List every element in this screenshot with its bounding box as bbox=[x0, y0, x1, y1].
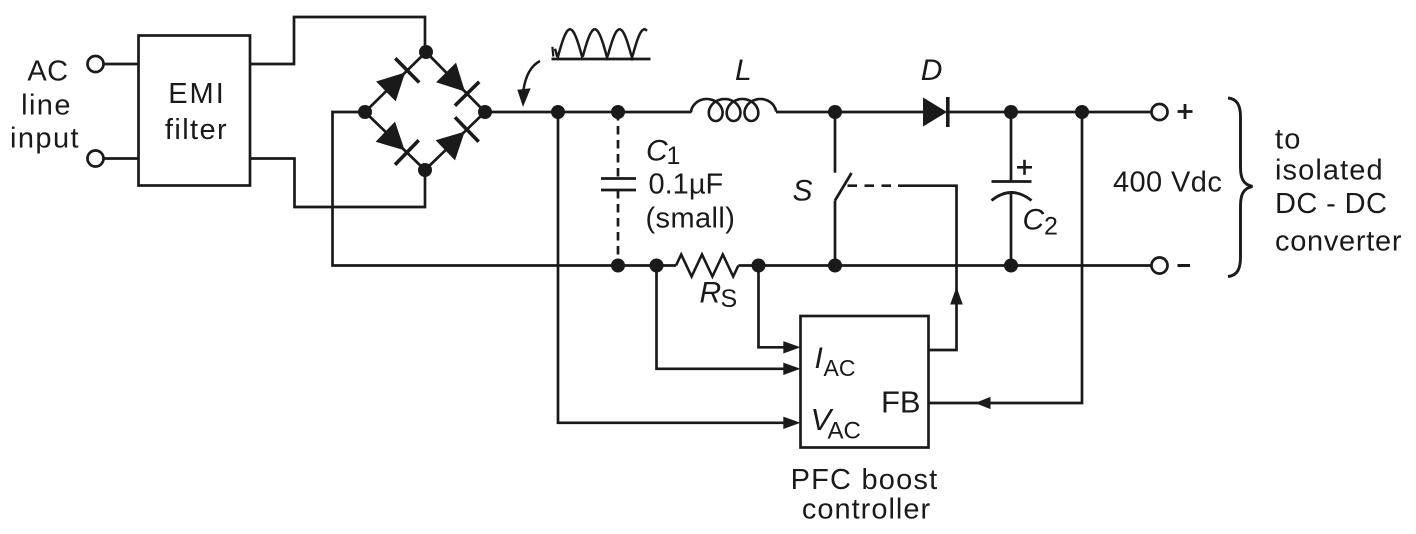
svg-text:input: input bbox=[10, 123, 80, 155]
svg-text:0.1µF: 0.1µF bbox=[649, 169, 724, 201]
svg-text:AC: AC bbox=[27, 56, 68, 88]
svg-text:filter: filter bbox=[165, 114, 228, 146]
arrow: gate drive direction bbox=[950, 287, 963, 305]
svg-text:C: C bbox=[646, 135, 668, 168]
switch S bbox=[834, 112, 837, 173]
svg-text:line: line bbox=[21, 90, 72, 122]
svg-text:I: I bbox=[815, 342, 823, 375]
node: C2 positive junction bbox=[1004, 105, 1018, 119]
svg-text:controller: controller bbox=[802, 494, 931, 526]
diode D bbox=[923, 98, 947, 127]
wire: bridge left node to negative bottom rail bbox=[333, 112, 677, 266]
node: switch drain junction bbox=[828, 105, 842, 119]
wire: Rs left sense to Iac input bbox=[657, 266, 785, 369]
wire: inductor to diode D bbox=[776, 111, 923, 114]
bridge diode (bottom-to-right) bbox=[436, 132, 465, 161]
wire: EMI filter top output to bridge top node bbox=[250, 17, 425, 64]
svg-text:DC - DC: DC - DC bbox=[1275, 188, 1387, 220]
node: bridge right bbox=[478, 105, 492, 119]
annotation: curved arrow pointing at rectified node bbox=[523, 61, 540, 91]
node: bridge top bbox=[419, 45, 433, 59]
node: C2 negative junction bbox=[1004, 259, 1018, 273]
wire: Vac sense to controller bbox=[558, 112, 784, 423]
label: + polarity bbox=[1178, 110, 1193, 113]
wire: hot terminal to EMI filter bbox=[104, 63, 140, 66]
wire: neutral terminal to EMI filter bbox=[104, 157, 140, 160]
node: Vac sense tap bbox=[551, 105, 565, 119]
wire: top rail bridge to inductor bbox=[485, 111, 692, 114]
svg-text:S: S bbox=[721, 285, 738, 313]
svg-text:to: to bbox=[1275, 124, 1302, 156]
bridge diode (top-to-right) bbox=[436, 63, 465, 92]
wire: Rs right sense to Iac input bbox=[759, 266, 785, 348]
inductor L bbox=[691, 99, 776, 121]
label: - polarity bbox=[1178, 264, 1191, 267]
annotation: output brace bbox=[1228, 98, 1253, 277]
node: C1 tap bbox=[611, 105, 625, 119]
svg-text:AC: AC bbox=[824, 355, 856, 381]
svg-text:D: D bbox=[921, 54, 943, 87]
arrow: Iac upper input bbox=[783, 341, 800, 353]
svg-text:R: R bbox=[700, 277, 722, 310]
svg-text:C: C bbox=[1023, 204, 1045, 237]
arrow: Iac lower input bbox=[783, 363, 800, 375]
arrow: FB direction bbox=[975, 397, 991, 409]
svg-text:(small): (small) bbox=[646, 203, 736, 235]
bridge diode (left-to-bottom) bbox=[376, 122, 405, 151]
resistor Rs bbox=[676, 255, 738, 277]
node: Rs left sense bbox=[650, 259, 664, 273]
node: AC line terminal (hot) bbox=[88, 56, 104, 72]
node: Rs right sense bbox=[752, 259, 766, 273]
wire: output voltage feedback to FB pin bbox=[929, 112, 1083, 403]
node: + output terminal bbox=[1152, 104, 1168, 120]
node: bridge bottom bbox=[418, 163, 432, 177]
capacitor C1 (dashed leads) bbox=[617, 112, 620, 179]
node: bridge left bbox=[358, 105, 372, 119]
node: C1 bottom bbox=[611, 259, 625, 273]
wire: diode to + output terminal bbox=[948, 111, 1152, 114]
wire: bottom rail Rs to - output terminal bbox=[739, 264, 1152, 267]
label: C2 polarity + bbox=[1017, 166, 1032, 169]
svg-text:isolated: isolated bbox=[1275, 155, 1384, 187]
node: - output terminal bbox=[1152, 258, 1168, 274]
svg-text:L: L bbox=[735, 54, 752, 87]
bridge diode (left-to-top) bbox=[376, 73, 405, 102]
svg-text:PFC boost: PFC boost bbox=[791, 464, 939, 496]
svg-text:S: S bbox=[793, 175, 813, 208]
wire: gate drive dashed control link bbox=[848, 184, 899, 187]
svg-text:EMI: EMI bbox=[168, 78, 226, 110]
annotation: waveform start tick bbox=[551, 47, 554, 57]
svg-text:400 Vdc: 400 Vdc bbox=[1113, 167, 1222, 199]
bridge rectifier edges bbox=[365, 52, 426, 112]
arrow: Vac input bbox=[783, 417, 800, 429]
block: EMI filter bbox=[139, 36, 251, 186]
block: PFC boost controller U1 bbox=[801, 316, 929, 448]
node: switch source junction bbox=[828, 259, 842, 273]
svg-text:AC: AC bbox=[828, 418, 861, 445]
svg-text:2: 2 bbox=[1044, 213, 1058, 241]
node: AC line terminal (neutral) bbox=[88, 151, 104, 167]
annotation: rectified sine waveform bbox=[555, 29, 647, 57]
svg-text:converter: converter bbox=[1275, 226, 1402, 258]
node: feedback sense junction bbox=[1075, 105, 1089, 119]
svg-text:1: 1 bbox=[667, 142, 681, 170]
capacitor C2 bbox=[1010, 112, 1013, 182]
wire: EMI filter bottom output to bridge bottom node bbox=[250, 159, 425, 208]
annotation: waveform baseline bbox=[552, 58, 651, 61]
svg-text:FB: FB bbox=[881, 385, 921, 420]
